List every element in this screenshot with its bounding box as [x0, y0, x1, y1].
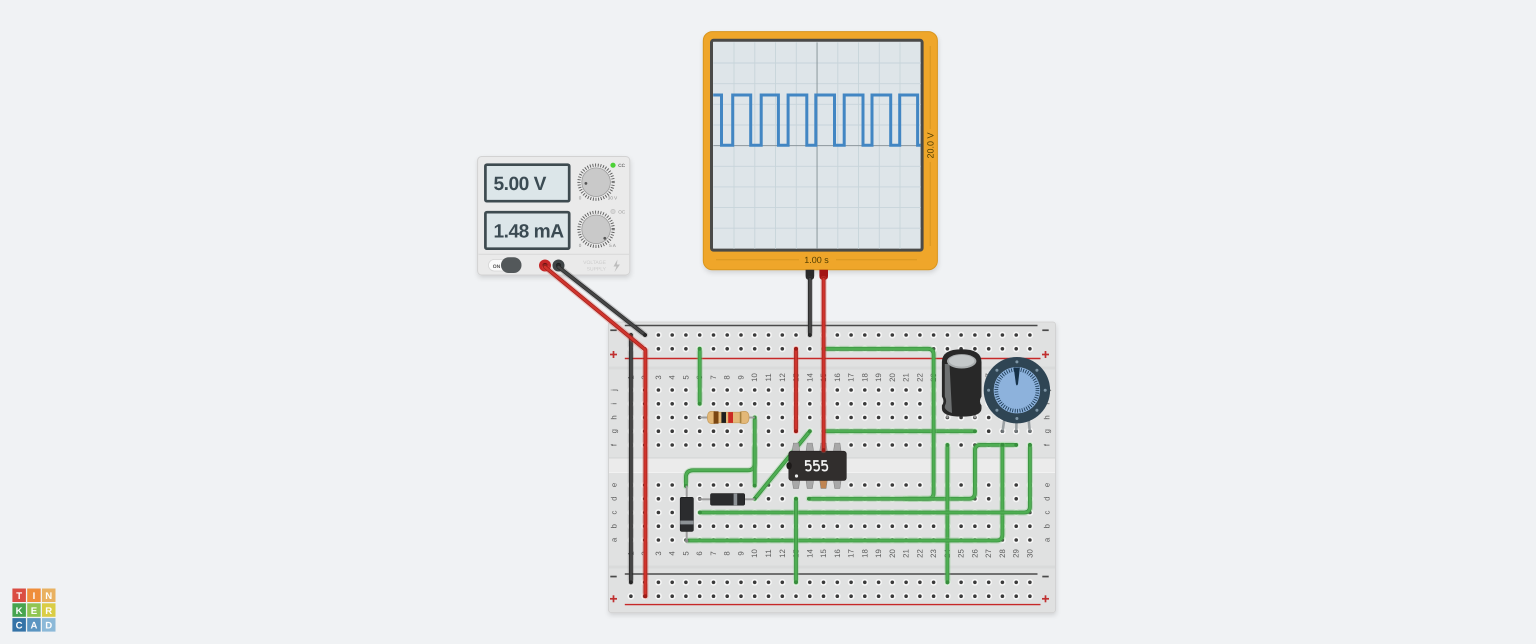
- svg-text:21: 21: [902, 373, 911, 382]
- wire black from PS1 - terminal to top - rail: [559, 267, 647, 337]
- svg-text:N: N: [45, 591, 52, 602]
- svg-text:R: R: [45, 606, 52, 617]
- svg-text:h: h: [609, 415, 618, 419]
- wire green W5 node 5e to channel to node 10f: [684, 447, 755, 488]
- bottom positive bus line: [625, 604, 1041, 606]
- svg-text:h: h: [1042, 415, 1051, 419]
- PS1 current display 1.48 mA: [485, 212, 569, 249]
- svg-text:j: j: [609, 389, 618, 392]
- row letter labels: [609, 389, 1051, 542]
- svg-text:4: 4: [668, 375, 677, 380]
- svg-text:9: 9: [737, 551, 746, 555]
- svg-text:12: 12: [778, 549, 787, 558]
- wire green W6 diagonal node 10d to node 14g: [753, 429, 812, 500]
- svg-text:22: 22: [915, 373, 924, 382]
- svg-text:d: d: [1042, 497, 1051, 501]
- svg-text:20.0 V: 20.0 V: [926, 132, 936, 158]
- SCOPE1 screen: [712, 40, 923, 250]
- wire green W8 node 14d to node 29f: [807, 443, 1018, 501]
- potentiometer RV1 (legs 28g,29g,30g): [984, 357, 1050, 433]
- svg-text:14: 14: [805, 549, 814, 558]
- diode D2 (breadboard 5e-5a, vertical): [680, 486, 693, 543]
- SCOPE1 square waveform trace: [713, 95, 920, 145]
- top negative bus line: [625, 325, 1038, 327]
- op-amp/timer U1 555 DIP-8: [786, 443, 846, 489]
- SCOPE1 red probe connector: [819, 270, 828, 280]
- svg-text:19: 19: [874, 373, 883, 382]
- svg-text:a: a: [609, 537, 618, 542]
- svg-text:17: 17: [847, 549, 856, 558]
- svg-text:14: 14: [805, 373, 814, 382]
- PS1 negative terminal: [553, 260, 565, 272]
- wire red from PS1 + terminal to bottom + rail: [545, 267, 647, 598]
- svg-text:a: a: [1042, 537, 1051, 542]
- PS1 CC indicator LED: [610, 163, 625, 168]
- PS1 ON toggle switch: [489, 257, 522, 273]
- wire green W7 row g col15 to col26: [824, 429, 977, 433]
- svg-text:26: 26: [970, 549, 979, 558]
- svg-text:T: T: [16, 591, 22, 602]
- svg-text:21: 21: [902, 549, 911, 558]
- svg-text:CC: CC: [618, 163, 625, 168]
- power rail holes: [628, 332, 1034, 600]
- svg-text:SUPPLY: SUPPLY: [587, 267, 607, 273]
- power supply PS1: [478, 157, 630, 276]
- rail polarity symbols: [610, 329, 1049, 602]
- SCOPE1 vertical scale label 20.0 V: [926, 46, 936, 246]
- svg-text:5: 5: [681, 375, 690, 380]
- PS1 current knob: [579, 212, 617, 248]
- svg-text:22: 22: [915, 549, 924, 558]
- breadboard body: [609, 322, 1056, 613]
- svg-text:5 A: 5 A: [609, 243, 617, 248]
- svg-text:10: 10: [750, 373, 759, 382]
- svg-text:K: K: [16, 606, 23, 617]
- top positive bus line: [625, 358, 1041, 360]
- svg-text:b: b: [609, 523, 618, 528]
- svg-text:20: 20: [888, 549, 897, 558]
- svg-text:OC: OC: [618, 209, 626, 214]
- PS1 voltage knob: [579, 165, 618, 200]
- column number labels: [626, 373, 1034, 558]
- PS1 positive terminal: [539, 260, 551, 272]
- PS1 power icon: [614, 260, 621, 273]
- oscilloscope SCOPE1 frame: [703, 32, 937, 270]
- svg-text:8: 8: [723, 551, 732, 555]
- svg-text:8: 8: [723, 375, 732, 379]
- svg-text:23: 23: [929, 549, 938, 558]
- svg-text:7: 7: [709, 551, 718, 555]
- svg-text:i: i: [609, 403, 618, 405]
- svg-text:15: 15: [819, 549, 828, 558]
- resistor R1 1k (breadboard 6h-10h): [700, 411, 755, 423]
- svg-text:D: D: [45, 621, 52, 632]
- svg-text:18: 18: [860, 373, 869, 382]
- svg-text:30 V: 30 V: [608, 196, 618, 201]
- capacitor C1 electrolytic (24h-26h): [942, 349, 982, 418]
- svg-text:e: e: [609, 483, 618, 487]
- svg-text:12: 12: [778, 373, 787, 382]
- svg-text:e: e: [1042, 483, 1051, 487]
- svg-text:18: 18: [860, 549, 869, 558]
- svg-text:9: 9: [737, 375, 746, 379]
- wire green W13 node 13d to bottom rail: [794, 497, 798, 584]
- svg-text:1.48 mA: 1.48 mA: [494, 221, 565, 242]
- wire green W4 node 10h to node 10e: [753, 416, 757, 488]
- svg-text:11: 11: [764, 373, 773, 381]
- svg-text:11: 11: [764, 549, 773, 557]
- terminal strip holes: [628, 387, 1034, 544]
- wire green W10 node 28f to row a col5: [686, 443, 1005, 542]
- svg-text:5.00 V: 5.00 V: [494, 174, 547, 195]
- svg-text:c: c: [1042, 510, 1051, 514]
- PS1 voltage display 5.00 V: [485, 165, 569, 202]
- PS1 label VOLTAGE SUPPLY: [583, 260, 607, 273]
- diode D1 (breadboard 6d-10d): [698, 494, 755, 506]
- svg-text:d: d: [609, 497, 618, 501]
- svg-text:g: g: [1042, 429, 1051, 433]
- svg-text:I: I: [33, 591, 36, 602]
- svg-text:g: g: [609, 429, 618, 433]
- svg-text:0: 0: [579, 243, 582, 248]
- svg-text:4: 4: [668, 551, 677, 556]
- SCOPE1 screen grid: [713, 42, 921, 249]
- wire black scope probe to top - rail (14): [808, 279, 812, 337]
- svg-text:17: 17: [847, 373, 856, 382]
- Tinkercad logo: [12, 589, 55, 632]
- svg-text:c: c: [609, 510, 618, 514]
- svg-text:19: 19: [874, 549, 883, 558]
- svg-text:3: 3: [654, 375, 663, 379]
- svg-text:ON: ON: [493, 264, 501, 270]
- svg-text:VOLTAGE: VOLTAGE: [583, 260, 607, 266]
- wire green W3 + rail to col23 row d: [822, 347, 934, 499]
- wire green W1 + rail to node 6i: [698, 347, 702, 406]
- wire black bus jumper (top - rail to bottom - rail): [629, 333, 633, 584]
- svg-text:28: 28: [998, 549, 1007, 558]
- svg-text:0: 0: [579, 196, 582, 201]
- wire red scope probe to U1 pin 8 (15f): [822, 279, 826, 452]
- svg-text:20: 20: [888, 373, 897, 382]
- svg-text:1.00 s: 1.00 s: [804, 255, 829, 265]
- svg-text:29: 29: [1012, 549, 1021, 558]
- wire green W11 node 6c to node 30f: [698, 443, 1032, 514]
- svg-text:E: E: [31, 606, 38, 617]
- svg-text:25: 25: [957, 549, 966, 558]
- svg-text:30: 30: [1025, 549, 1034, 558]
- bottom negative bus line: [625, 573, 1038, 575]
- svg-text:16: 16: [833, 549, 842, 558]
- svg-text:b: b: [1042, 523, 1051, 528]
- svg-text:A: A: [30, 621, 37, 632]
- svg-text:5: 5: [681, 551, 690, 556]
- svg-text:27: 27: [984, 549, 993, 558]
- svg-text:16: 16: [833, 373, 842, 382]
- svg-text:6: 6: [695, 551, 704, 555]
- svg-text:7: 7: [709, 375, 718, 379]
- PS1 OC indicator: [611, 209, 626, 214]
- SCOPE1 black probe connector: [806, 270, 815, 280]
- svg-text:10: 10: [750, 549, 759, 558]
- svg-text:C: C: [16, 621, 23, 632]
- SCOPE1 timebase label 1.00 s: [716, 255, 917, 265]
- wire green W9 node 24f to bottom rail: [945, 443, 949, 584]
- wire red W2 + rail to node 13g: [794, 347, 798, 433]
- svg-text:3: 3: [654, 551, 663, 555]
